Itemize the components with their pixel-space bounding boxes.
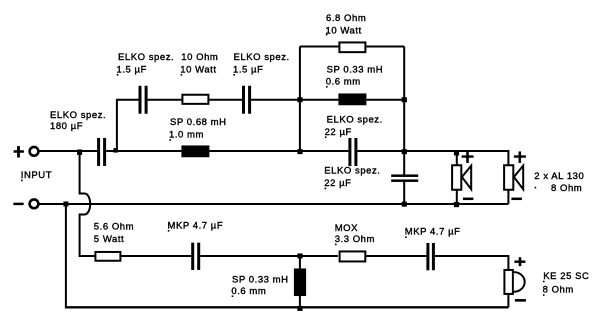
svg-text:1.5 µF: 1.5 µF [233,64,263,75]
svg-text:5 Watt: 5 Watt [94,234,124,245]
wire main line cap180 to inductor [106,150,181,152]
anchor dot 1.5uF right [233,74,235,76]
wire speaker1 bottom lead [456,190,458,204]
speaker SP2 AL130 [504,165,523,190]
wire tweeter line mox to cap2 [365,255,426,257]
svg-text:MKP 4.7 µF: MKP 4.7 µF [405,227,461,238]
wire sp033 upper branch right [366,99,404,101]
junction speaker1 top [454,150,459,156]
junction upper sp033 right bus [402,97,407,102]
wire main line inductor to series cap [209,150,348,152]
anchor dot 10 Watt 6.8 [326,34,328,36]
anchor dot MKP right [405,236,407,238]
anchor dot 8 Ohm AL130 [535,187,537,189]
capacitor C MKP 4.7uF right [426,243,429,270]
input plus sign [14,146,24,158]
svg-text:10 Watt: 10 Watt [326,25,362,36]
capacitor C ELKO 22uF shunt [391,174,418,177]
svg-text:1.5 µF: 1.5 µF [117,64,147,75]
junction main to hop line [77,149,82,155]
svg-text:KE 25 SC: KE 25 SC [543,271,589,282]
svg-text:SP 0.33 mH: SP 0.33 mH [327,64,384,75]
svg-text:MOX: MOX [335,223,358,234]
wire tweeter bottom lead [507,295,509,307]
wire speaker2 bottom lead [507,190,509,204]
wire vertical inductor top lead [299,256,301,269]
svg-text:10 Watt: 10 Watt [180,64,216,75]
wire tweeter line resistor to cap [121,255,191,257]
anchor dot 22uF series [325,136,327,138]
wire tweeter line cap to junction [200,255,338,257]
anchor dot 3.3 Ohm [335,244,337,246]
wire sp033 upper branch left [300,99,339,101]
anchor dot KE25 [543,281,545,283]
junction speaker1 bottom [454,202,459,207]
wire 6.8 ohm branch [300,45,339,47]
tweeter minus [515,299,526,302]
svg-text:SP 0.33 mH: SP 0.33 mH [232,275,289,286]
anchor dot 0.6mm lower [232,295,234,297]
svg-text:10 Ohm: 10 Ohm [181,52,218,63]
svg-text:180 µF: 180 µF [50,121,83,132]
wire right bus lower [403,182,405,204]
wire upper branch vertical riser [117,100,139,151]
wire main line series cap to speaker2 corner [357,151,508,165]
anchor dot 0.6mm upper [326,86,328,88]
speaker SP1 plus [462,151,474,163]
wire upper branch cap2 to left bus [251,99,300,101]
junction bottom rail inductor [297,306,302,311]
anchor dot 1.0mm [169,139,171,141]
wire left bus vertical [299,46,301,151]
junction main to upper branch [113,148,118,153]
svg-text:5.6 Ohm: 5.6 Ohm [94,222,134,233]
wire right bus upper [403,46,405,174]
wire upper branch cap1 to resistor10 [148,99,182,101]
svg-text:8 Ohm: 8 Ohm [551,183,582,194]
junction minus to left drop [63,201,68,206]
svg-text:22 µF: 22 µF [324,178,351,189]
svg-text:3.3 Ohm: 3.3 Ohm [335,234,375,245]
wire tweeter line cap2 to tweeter [435,256,509,269]
anchor dot 10 Watt [181,74,183,76]
resistor R 5.6 Ohm [95,252,120,261]
svg-text:ELKO spez.: ELKO spez. [118,52,174,63]
anchor dot 22uF shunt [325,188,327,190]
resistor R 10 Ohm [182,95,208,104]
tweeter KE 25 SC [504,270,524,294]
svg-text:ELKO spez.: ELKO spez. [327,115,383,126]
wire bottom rail [65,306,509,308]
capacitor C ELKO 22uF series [348,138,351,166]
resistor R 6.8 Ohm [339,42,365,52]
junction main to left bus [297,149,302,154]
wire hop line over minus [80,152,95,256]
capacitor C ELKO 1.5uF right [242,86,245,114]
junction main to right bus [402,149,407,154]
wire left drop to bottom rail [65,204,67,307]
input plus terminal [30,147,39,156]
speaker SP2 plus [514,151,526,163]
junction upper branch cross [297,97,302,102]
svg-text:ELKO spez.: ELKO spez. [234,52,290,63]
anchor dot INPUT [21,180,23,182]
speaker SP1 AL130 [452,165,471,190]
inductor L SP 0.33 mH vertical [294,268,306,296]
svg-text:0.6 mm: 0.6 mm [231,286,266,297]
junction tweeter inductor top [297,253,302,258]
input minus sign [13,203,23,206]
svg-text:1.0 mm: 1.0 mm [169,130,204,141]
svg-text:MKP 4.7 µF: MKP 4.7 µF [168,220,224,231]
wire vertical inductor bottom lead [299,296,301,307]
anchor dot MKP left [168,230,170,232]
svg-text:2 x AL 130: 2 x AL 130 [534,171,584,182]
svg-text:8 Ohm: 8 Ohm [543,285,574,296]
wire main plus line [39,150,97,152]
wire 6.8 ohm branch right [366,45,404,47]
svg-text:ELKO spez.: ELKO spez. [324,166,380,177]
svg-text:INPUT: INPUT [21,170,52,181]
capacitor C ELKO 1.5uF left [139,86,142,114]
wire minus line [39,203,509,205]
wire speaker1 top lead [456,151,458,165]
junction shunt cap bottom [402,202,407,207]
anchor dot 8 Ohm tweeter [543,294,545,296]
svg-text:22 µF: 22 µF [325,127,352,138]
tweeter plus [514,257,525,266]
inductor L SP 0.68 mH [181,145,209,157]
svg-text:ELKO spez.: ELKO spez. [50,110,106,121]
capacitor C MKP 4.7uF left [191,243,194,270]
svg-text:6.8 Ohm: 6.8 Ohm [326,13,366,24]
input minus terminal [30,199,39,208]
speaker SP1 minus [463,198,474,201]
speaker SP2 minus [511,198,522,201]
wire upper branch resistor10 to cap2 [209,99,242,101]
capacitor C ELKO 180uF [97,138,100,166]
resistor R MOX 3.3 Ohm [340,251,366,261]
svg-text:SP 0.68 mH: SP 0.68 mH [170,117,227,128]
inductor L SP 0.33 mH upper [338,93,366,105]
svg-text:0.6 mm: 0.6 mm [326,76,361,87]
anchor dot 1.5uF left [117,74,119,76]
